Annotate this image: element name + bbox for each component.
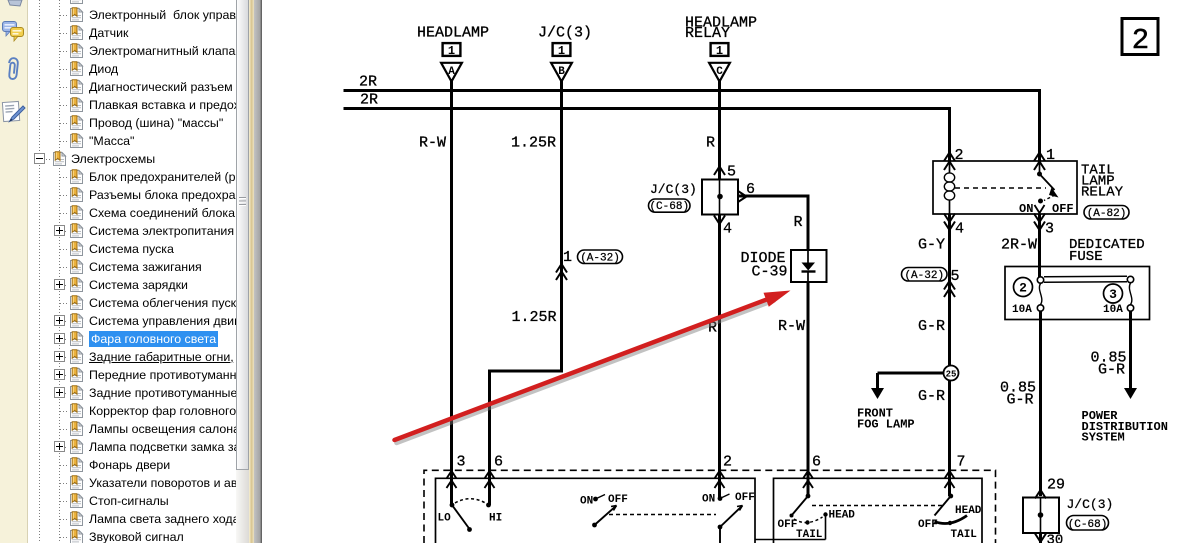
- svg-text:2R: 2R: [359, 74, 377, 91]
- svg-text:R: R: [706, 135, 715, 152]
- svg-text:RELAY: RELAY: [1081, 185, 1124, 201]
- svg-text:G-R: G-R: [1098, 362, 1125, 379]
- svg-text:B: B: [558, 66, 565, 78]
- svg-text:30: 30: [1047, 533, 1064, 544]
- svg-text:J/C(3): J/C(3): [650, 182, 697, 197]
- svg-text:C: C: [716, 66, 723, 78]
- svg-text:TAIL: TAIL: [951, 529, 978, 541]
- svg-text:OFF: OFF: [778, 519, 798, 531]
- svg-text:C-39: C-39: [752, 264, 788, 281]
- svg-text:1: 1: [563, 249, 572, 266]
- svg-text:TAIL: TAIL: [796, 529, 823, 541]
- svg-text:6: 6: [812, 454, 821, 471]
- svg-text:1.25R: 1.25R: [512, 309, 557, 326]
- svg-text:OFF: OFF: [608, 494, 628, 506]
- svg-text:10A: 10A: [1012, 304, 1032, 316]
- svg-text:A: A: [448, 66, 455, 78]
- svg-text:1: 1: [558, 44, 565, 58]
- svg-text:2: 2: [1019, 281, 1027, 296]
- svg-text:ON: ON: [1019, 202, 1033, 216]
- svg-text:(A-32): (A-32): [580, 252, 620, 264]
- svg-text:4: 4: [723, 221, 732, 238]
- svg-text:R-W: R-W: [419, 135, 446, 152]
- svg-text:OFF: OFF: [1052, 202, 1074, 216]
- svg-text:RELAY: RELAY: [685, 25, 730, 42]
- svg-text:HEAD: HEAD: [955, 505, 982, 517]
- svg-text:3: 3: [1109, 287, 1117, 302]
- svg-text:5: 5: [727, 164, 736, 181]
- svg-text:SYSTEM: SYSTEM: [1082, 431, 1125, 445]
- svg-text:(A-32): (A-32): [904, 270, 944, 282]
- svg-text:ON: ON: [702, 494, 715, 506]
- svg-text:HEAD: HEAD: [829, 510, 856, 522]
- svg-text:HEADLAMP: HEADLAMP: [417, 25, 489, 42]
- svg-text:OFF: OFF: [735, 492, 755, 504]
- svg-text:1.25R: 1.25R: [511, 135, 556, 152]
- svg-text:LO: LO: [438, 513, 452, 525]
- svg-text:5: 5: [951, 268, 960, 285]
- svg-text:(A-82): (A-82): [1087, 208, 1127, 220]
- svg-text:(C-68): (C-68): [1068, 519, 1108, 531]
- svg-text:HI: HI: [489, 513, 502, 525]
- svg-text:G-Y: G-Y: [918, 237, 945, 254]
- svg-text:2R-W: 2R-W: [1001, 237, 1037, 254]
- svg-text:25: 25: [946, 370, 957, 380]
- svg-text:2: 2: [723, 454, 732, 471]
- svg-text:2: 2: [1132, 24, 1149, 57]
- svg-text:ON: ON: [580, 496, 593, 508]
- svg-text:G-R: G-R: [1007, 392, 1034, 409]
- svg-text:1: 1: [716, 44, 723, 58]
- svg-text:2R: 2R: [360, 92, 378, 109]
- svg-text:J/C(3): J/C(3): [538, 25, 592, 42]
- svg-text:29: 29: [1047, 477, 1065, 494]
- svg-text:3: 3: [457, 454, 466, 471]
- svg-text:G-R: G-R: [918, 388, 945, 405]
- svg-text:FOG LAMP: FOG LAMP: [857, 418, 915, 432]
- svg-text:10A: 10A: [1103, 304, 1123, 316]
- svg-text:G-R: G-R: [918, 318, 945, 335]
- svg-text:3: 3: [1045, 221, 1054, 238]
- svg-text:6: 6: [494, 454, 503, 471]
- svg-text:1: 1: [448, 44, 455, 58]
- svg-text:J/C(3): J/C(3): [1067, 497, 1114, 512]
- svg-text:7: 7: [957, 454, 966, 471]
- svg-text:R-W: R-W: [778, 318, 805, 335]
- svg-text:(C-68): (C-68): [649, 201, 689, 213]
- svg-text:2: 2: [955, 147, 964, 164]
- svg-text:FUSE: FUSE: [1069, 249, 1103, 265]
- svg-text:4: 4: [955, 221, 964, 238]
- svg-text:1: 1: [1046, 147, 1055, 164]
- svg-text:R: R: [794, 214, 803, 231]
